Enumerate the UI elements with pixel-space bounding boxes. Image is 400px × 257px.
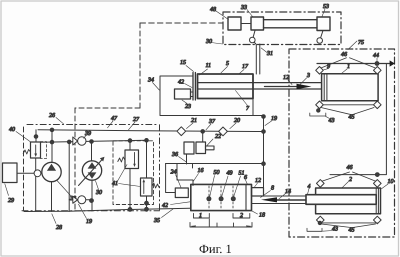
pump 38 xyxy=(42,162,61,181)
wire pump30 down xyxy=(91,180,93,211)
cylinder cap 11 xyxy=(193,73,195,101)
secondary line B xyxy=(41,140,147,142)
svg-text:27: 27 xyxy=(133,117,140,123)
V lines 46 top xyxy=(322,58,375,68)
svg-text:2: 2 xyxy=(240,213,243,219)
valve port block right xyxy=(252,188,264,196)
check valve 19 xyxy=(73,196,78,203)
svg-text:5: 5 xyxy=(226,61,229,67)
svg-text:35: 35 xyxy=(153,218,160,224)
svg-text:15: 15 xyxy=(180,60,186,66)
node V3 xyxy=(231,197,235,201)
trunnion diamond 2d xyxy=(373,216,381,224)
V lines 46 assembly2 xyxy=(322,172,376,181)
svg-text:19: 19 xyxy=(271,116,277,122)
svg-text:45: 45 xyxy=(349,115,355,121)
svg-text:12: 12 xyxy=(255,178,261,184)
svg-text:42: 42 xyxy=(178,80,184,86)
pilot line y163.5 xyxy=(166,163,264,165)
crane boundary dash-dot box right xyxy=(289,49,395,237)
svg-text:37: 37 xyxy=(208,119,216,125)
node B3 xyxy=(90,140,94,144)
solenoid 22 xyxy=(202,132,204,143)
port circle under 33 xyxy=(253,31,255,38)
svg-text:26: 26 xyxy=(49,113,55,119)
svg-text:18: 18 xyxy=(259,213,265,219)
svg-text:75: 75 xyxy=(358,40,364,46)
node V1 xyxy=(207,197,211,201)
relief valve 41a xyxy=(125,150,139,169)
wire dashed vertical x73 xyxy=(74,108,76,211)
relief unit dashed box xyxy=(113,141,154,205)
trunnion diamond 2b xyxy=(373,180,381,188)
bracket 43 a2 xyxy=(307,228,322,231)
svg-text:44: 44 xyxy=(373,53,379,59)
trunnion diamond 1b xyxy=(373,66,381,74)
motion arrow 12/3 xyxy=(265,86,299,88)
tank 29 xyxy=(3,163,18,183)
svg-text:47: 47 xyxy=(111,116,118,122)
svg-text:45: 45 xyxy=(349,228,355,234)
trunnion diamond 2c xyxy=(316,216,324,224)
bottom link assembly2 xyxy=(319,222,378,224)
svg-text:Фиг. 1: Фиг. 1 xyxy=(199,242,232,256)
trunnion diamond 2a xyxy=(316,180,324,188)
V lines 45 bottom xyxy=(321,108,374,115)
svg-text:20: 20 xyxy=(234,118,240,124)
relief valve 41b xyxy=(141,178,153,196)
svg-text:53: 53 xyxy=(323,4,329,10)
svg-text:29: 29 xyxy=(8,198,14,204)
bottom wire left xyxy=(24,210,69,212)
hydraulic cylinder 5 body xyxy=(198,74,254,99)
svg-text:43: 43 xyxy=(332,227,338,233)
node V2 xyxy=(219,197,223,201)
block 33 xyxy=(251,17,264,30)
svg-text:33: 33 xyxy=(240,5,247,11)
svg-text:23: 23 xyxy=(185,104,191,110)
roller frame 1 bottom link xyxy=(320,104,378,106)
enclosure right dash-dot border xyxy=(159,125,161,211)
node B0 valve40 xyxy=(34,135,38,139)
node B2 xyxy=(67,140,71,144)
node cylinder drain corner xyxy=(262,115,266,119)
wire 34 from cylinder cap xyxy=(160,76,264,116)
trunnion diamond 1d xyxy=(373,101,381,109)
svg-text:46: 46 xyxy=(341,52,347,58)
node A2 xyxy=(201,130,205,134)
svg-text:7: 7 xyxy=(246,106,250,112)
wire 36 vertical xyxy=(186,154,188,164)
roller frame 2 xyxy=(316,188,381,214)
wire dashed vertical x140 xyxy=(139,23,141,108)
svg-text:1: 1 xyxy=(347,64,350,70)
link 48-33 xyxy=(241,23,251,25)
relief valve 40 xyxy=(31,142,41,158)
node pump30 drain xyxy=(90,199,94,203)
piston rod 7 xyxy=(198,83,322,89)
svg-text:22: 22 xyxy=(215,134,221,140)
press line assembly1 top xyxy=(317,63,392,65)
wire pump38 vertical xyxy=(51,130,53,163)
trunnion diamond 1a xyxy=(316,66,324,74)
svg-text:21: 21 xyxy=(191,118,197,124)
piston rod 4 bar xyxy=(306,195,376,205)
wire to pilot box 24 xyxy=(166,164,193,193)
node B1 xyxy=(50,140,54,144)
control unit 30 dash-dot box xyxy=(223,12,341,45)
wire vertical x263.5 down to rod xyxy=(263,116,265,197)
svg-text:43: 43 xyxy=(329,118,335,124)
pipe 31 double line xyxy=(255,43,260,75)
relief valve 40 dashed pilot outline xyxy=(41,142,47,159)
svg-text:48: 48 xyxy=(210,7,216,13)
svg-text:19: 19 xyxy=(86,219,92,225)
valve position dashes xyxy=(209,186,233,210)
bar to 53 xyxy=(264,20,318,28)
wire x36 to relief valve 40 xyxy=(35,130,37,142)
port circle under 53 xyxy=(321,31,323,38)
svg-text:30: 30 xyxy=(95,190,102,196)
svg-text:17: 17 xyxy=(242,64,249,70)
node R3 xyxy=(145,207,149,211)
node under diamond 2c xyxy=(318,221,321,224)
check valve 21 diamond xyxy=(177,127,186,136)
directional valve block 16 xyxy=(191,184,252,210)
node R2 xyxy=(145,201,149,205)
wire right vertical to assembly2 xyxy=(330,64,386,175)
position bracket 1 xyxy=(194,214,210,219)
svg-text:50: 50 xyxy=(214,170,220,176)
svg-text:10: 10 xyxy=(388,179,394,185)
enclosure left dashed border xyxy=(23,127,25,211)
node under diamond 1c xyxy=(317,109,320,112)
node A3 xyxy=(262,130,266,134)
damper block 23 xyxy=(175,89,191,99)
node B5 xyxy=(145,139,149,143)
node A1 xyxy=(50,128,54,132)
node T2 xyxy=(375,173,379,177)
machine boundary dash-dot y124.5 xyxy=(27,124,158,126)
drain bottom wire xyxy=(69,208,190,211)
wire x69 drain xyxy=(68,142,70,211)
check valve 39 xyxy=(73,137,78,145)
node pilot right xyxy=(262,162,266,166)
svg-text:14: 14 xyxy=(285,189,291,195)
svg-text:2: 2 xyxy=(349,177,352,183)
svg-text:49: 49 xyxy=(227,171,233,177)
svg-text:31: 31 xyxy=(266,51,273,57)
wires relief verticals xyxy=(130,140,147,209)
svg-text:46: 46 xyxy=(347,165,353,171)
svg-text:30: 30 xyxy=(205,39,212,45)
return arrow 8 xyxy=(276,199,307,201)
svg-text:8: 8 xyxy=(271,186,274,192)
trunnion diamond 1c xyxy=(316,101,324,109)
svg-text:16: 16 xyxy=(198,168,204,174)
wire dashed horizontal y108 xyxy=(75,107,140,109)
wire pump38 down xyxy=(51,182,53,212)
main pressure line A xyxy=(38,130,264,132)
wire dash-dot from control box to left xyxy=(140,22,223,24)
bracket 43 a1 xyxy=(310,113,326,116)
enclosure bottom dash-dot xyxy=(22,210,160,212)
position bracket 2 xyxy=(233,214,250,219)
dimension bracket xyxy=(190,219,252,227)
block 48 xyxy=(228,17,241,30)
V lines 45 assembly2 xyxy=(322,224,376,228)
node R1 xyxy=(128,208,132,212)
svg-text:11: 11 xyxy=(206,63,212,69)
wire cylinder bottom drop xyxy=(252,99,254,116)
rod line 14 xyxy=(252,196,307,204)
svg-text:36: 36 xyxy=(171,152,178,158)
roller frame 1 xyxy=(322,74,379,101)
svg-text:1: 1 xyxy=(199,213,202,219)
pilot box 24 xyxy=(175,188,188,198)
pump 30 variable xyxy=(82,161,101,180)
svg-text:40: 40 xyxy=(9,127,15,133)
svg-text:28: 28 xyxy=(56,225,62,231)
block 53 xyxy=(317,17,330,31)
check valve 20 diamond xyxy=(219,127,228,136)
wire pump30 vertical xyxy=(91,142,93,161)
node T1 xyxy=(375,62,379,66)
svg-text:42: 42 xyxy=(162,203,168,209)
node B4 xyxy=(128,139,132,143)
